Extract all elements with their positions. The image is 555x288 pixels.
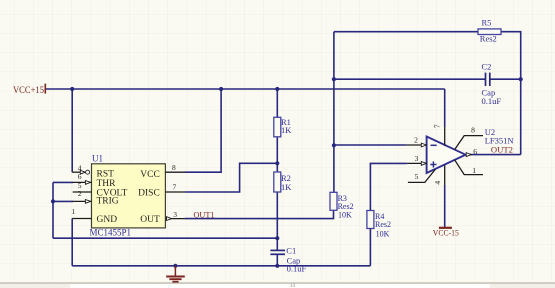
pin 6 op-amp output [466, 147, 521, 156]
pin 1 GND [72, 207, 92, 219]
svg-text:Res2: Res2 [480, 33, 497, 43]
svg-text:2: 2 [78, 189, 82, 198]
op-amp U2 [427, 127, 514, 173]
node junction R1-R2 [275, 161, 279, 165]
svg-text:1: 1 [72, 207, 76, 216]
svg-text:10K: 10K [338, 210, 352, 219]
pin 2 op-amp inverting [407, 136, 427, 147]
node junction C2 right [519, 77, 523, 81]
node junction C2 left [332, 77, 336, 81]
svg-text:14: 14 [290, 284, 296, 288]
svg-text:1K: 1K [281, 125, 292, 135]
svg-text:C1: C1 [286, 246, 296, 256]
wire THR-TRIG vertical [53, 182, 73, 238]
node junction ground [173, 264, 177, 268]
pin 3 OUT [165, 210, 185, 221]
pin 7 op-amp V+ [433, 89, 445, 146]
svg-text:5: 5 [415, 172, 419, 181]
resistor R2 [274, 172, 292, 192]
svg-text:VCC: VCC [140, 170, 160, 180]
node junction rail-pin8 [219, 87, 223, 91]
svg-text:4: 4 [433, 181, 442, 185]
svg-text:8: 8 [172, 163, 176, 172]
svg-text:2: 2 [414, 136, 418, 145]
svg-text:1K: 1K [281, 182, 292, 192]
resistor R5 [478, 18, 501, 44]
svg-text:8: 8 [471, 125, 475, 134]
wire GND pin down [71, 219, 73, 266]
pin 4 op-amp V- [433, 165, 445, 227]
wire ground rail [72, 265, 370, 267]
svg-text:Res2: Res2 [375, 220, 391, 229]
svg-text:C2: C2 [482, 61, 492, 71]
svg-text:VCC-15: VCC-15 [433, 229, 459, 238]
node junction pin2 wire [332, 143, 336, 147]
op-amp U1 body [90, 154, 166, 238]
node junction C1-gndrail [275, 264, 279, 268]
power port VCC-15 [433, 228, 459, 238]
capacitor C2 [482, 61, 502, 106]
pin 6 THR [73, 172, 92, 184]
power port VCC+15 [13, 84, 45, 95]
svg-text:OUT1: OUT1 [194, 209, 215, 219]
bottom panel strip [0, 283, 555, 288]
svg-text:1: 1 [472, 166, 476, 175]
wire VCC rail [46, 88, 445, 90]
wire R5 top loop [334, 32, 521, 155]
svg-text:TRIG: TRIG [97, 197, 119, 207]
svg-text:GND: GND [97, 215, 118, 225]
pin 5 op-amp balance [408, 169, 435, 182]
svg-text:MC1455P1: MC1455P1 [90, 227, 132, 237]
svg-text:3: 3 [415, 154, 419, 163]
pin 2 TRIG [73, 189, 92, 203]
pin 5 CVOLT [73, 181, 92, 192]
pin 3 op-amp non-inverting [407, 154, 427, 165]
pin 7 DISC [165, 182, 185, 192]
wire pin2 horizontal [334, 144, 407, 146]
pin 1 op-amp [455, 160, 483, 175]
wire R4 to ground rail [369, 229, 371, 266]
svg-text:6: 6 [473, 147, 477, 156]
wire DISC to R1-R2 junction [185, 163, 277, 192]
resistor R1 [274, 117, 292, 137]
pin 4 RST [72, 164, 89, 175]
svg-text:U1: U1 [92, 154, 103, 164]
svg-text:6: 6 [78, 172, 82, 181]
svg-text:0.1uF: 0.1uF [482, 96, 502, 106]
svg-text:10K: 10K [376, 230, 390, 239]
svg-text:7: 7 [433, 124, 442, 128]
net label OUT1 [194, 209, 215, 219]
capacitor C1 [270, 246, 306, 274]
svg-text:OUT2: OUT2 [491, 145, 513, 155]
net label OUT2 [491, 145, 513, 155]
pin 8 op-amp [455, 125, 483, 149]
node junction R2-C1 [275, 236, 279, 240]
svg-text:R5: R5 [482, 18, 492, 28]
resistor R4 [367, 211, 391, 239]
svg-text:0.1uF: 0.1uF [287, 264, 307, 274]
svg-text:3: 3 [173, 210, 177, 219]
wire rail to U1 pin8 [185, 89, 221, 172]
resistor R3 [330, 192, 354, 219]
svg-text:7: 7 [173, 182, 177, 191]
node junction rail-RST [70, 87, 74, 91]
wire rail to RST [71, 89, 73, 172]
wire pin3 net [370, 163, 406, 210]
pin 8 VCC [165, 163, 185, 172]
wire THR-TRIG to R2/C1 junction [53, 237, 277, 239]
ground [166, 266, 185, 282]
svg-text:VCC+15: VCC+15 [13, 85, 44, 95]
svg-text:DISC: DISC [138, 188, 160, 198]
wire OUT1 net [185, 210, 334, 218]
wire R1-R2 chain [276, 89, 278, 266]
wire pin2 net vertical [333, 32, 335, 193]
node junction rail-R1 [275, 87, 279, 91]
wire C2 net [334, 78, 521, 80]
svg-text:OUT: OUT [140, 215, 160, 225]
node junction TRIG [51, 199, 55, 203]
